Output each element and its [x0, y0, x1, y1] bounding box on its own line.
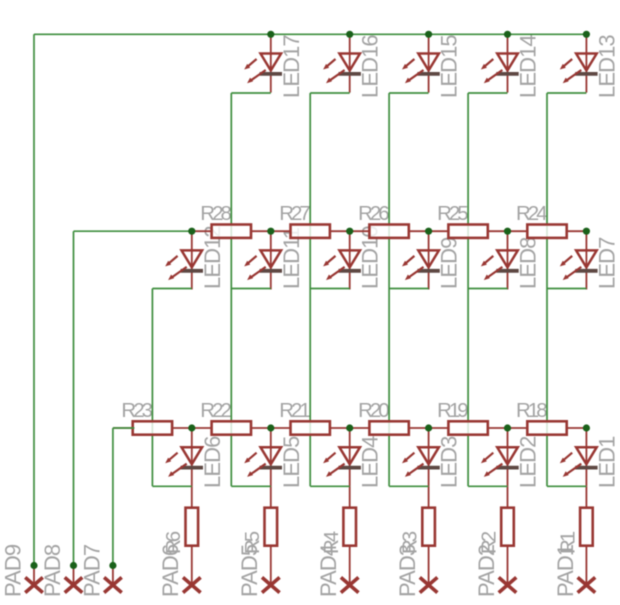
- pad PAD8: [65, 577, 83, 592]
- svg-text:PAD5: PAD5: [237, 544, 262, 597]
- pad PAD4: [341, 577, 359, 592]
- resistor R6 (vertical): [186, 508, 199, 546]
- wire bottom bus left stub: [113, 427, 134, 429]
- wire PAD7 drop: [112, 428, 114, 566]
- wire R3 leads to PAD3: [428, 486, 430, 585]
- junction middle bus at LED8: [504, 228, 511, 235]
- LED LED9: [402, 231, 440, 289]
- wire column F (LED13-LED7-LED1) vertical: [546, 93, 548, 486]
- wire PAD9 drop: [33, 34, 35, 565]
- resistor R19 (horizontal): [429, 421, 508, 434]
- junction top bus at LED13: [583, 31, 590, 38]
- wire LED8 cathode jog: [468, 288, 507, 290]
- svg-text:R20: R20: [358, 399, 389, 422]
- wire R2 leads to PAD2: [507, 486, 509, 585]
- wire column A vertical (LED12 to LED6): [151, 289, 153, 487]
- LED LED6: [165, 428, 203, 486]
- LED LED13: [560, 34, 598, 92]
- wire LED2 cathode jog: [468, 485, 507, 487]
- wire column B (LED17-LED11-LED5) vertical: [230, 93, 232, 486]
- svg-text:LED14: LED14: [516, 35, 541, 98]
- resistor R25 (horizontal): [429, 225, 508, 238]
- LED LED12: [165, 231, 203, 289]
- junction PAD7: [109, 562, 116, 569]
- resistor R3 (vertical): [422, 508, 435, 546]
- junction middle bus at LED12: [188, 228, 195, 235]
- LED LED1: [560, 428, 598, 486]
- junction PAD8: [70, 562, 77, 569]
- LED LED15: [402, 34, 440, 92]
- svg-text:LED15: LED15: [437, 35, 462, 98]
- pad PAD7: [104, 577, 122, 592]
- svg-text:R23: R23: [121, 399, 152, 422]
- svg-text:R25: R25: [437, 202, 468, 225]
- wire LED17 cathode jog: [231, 92, 270, 94]
- junction top bus at LED14: [504, 31, 511, 38]
- resistor R28 (horizontal): [192, 225, 271, 238]
- resistor R22 (horizontal): [192, 421, 271, 434]
- junction bottom bus at LED5: [267, 424, 274, 431]
- junction bottom bus at LED2: [504, 424, 511, 431]
- wire PAD8 pin: [73, 566, 75, 586]
- junction bottom bus at LED6: [188, 424, 195, 431]
- LED LED5: [244, 428, 282, 486]
- wire LED4 cathode jog: [310, 485, 350, 487]
- svg-text:R19: R19: [437, 399, 468, 422]
- svg-text:LED6: LED6: [200, 436, 225, 488]
- junction top bus at LED16: [346, 31, 353, 38]
- resistor R2 (vertical): [501, 508, 514, 546]
- resistor R4 (vertical): [343, 508, 356, 546]
- svg-text:LED3: LED3: [437, 436, 462, 488]
- svg-text:PAD6: PAD6: [158, 544, 183, 597]
- wire column D (LED15-LED9-LED3) vertical: [388, 93, 390, 486]
- wire column E (LED14-LED8-LED2) vertical: [467, 93, 469, 486]
- wire middle bus left: [74, 230, 192, 232]
- pad PAD2: [499, 577, 517, 592]
- svg-text:LED13: LED13: [594, 35, 619, 98]
- svg-text:PAD2: PAD2: [474, 544, 499, 597]
- wire R4 leads to PAD4: [349, 486, 351, 585]
- wire LED3 cathode jog: [389, 485, 429, 487]
- junction top bus at LED17: [267, 31, 274, 38]
- LED LED8: [481, 231, 519, 289]
- resistor R1 (vertical): [580, 508, 593, 546]
- resistor R5 (vertical): [265, 508, 278, 546]
- svg-text:R27: R27: [279, 202, 310, 225]
- resistor R21 (horizontal): [271, 421, 350, 434]
- resistor R23 (horizontal): [113, 421, 192, 434]
- svg-text:R26: R26: [358, 202, 389, 225]
- wire LED16 cathode jog: [310, 92, 350, 94]
- wire LED9 cathode jog: [389, 288, 429, 290]
- junction middle bus at LED11: [267, 228, 274, 235]
- LED LED14: [481, 34, 519, 92]
- junction middle bus at LED7: [583, 228, 590, 235]
- pad PAD5: [262, 577, 280, 592]
- svg-text:R24: R24: [516, 202, 547, 225]
- wire top bus: [34, 33, 586, 35]
- resistor R26 (horizontal): [350, 225, 429, 238]
- svg-text:LED8: LED8: [516, 237, 541, 289]
- wire R1 leads to PAD1: [585, 486, 587, 585]
- pad PAD6: [183, 577, 201, 592]
- wire LED13 cathode jog: [547, 92, 586, 94]
- svg-text:PAD4: PAD4: [316, 544, 341, 597]
- svg-text:LED7: LED7: [594, 237, 619, 289]
- svg-text:PAD7: PAD7: [79, 544, 104, 597]
- svg-text:R22: R22: [200, 399, 231, 422]
- wire R5 leads to PAD5: [270, 486, 272, 585]
- junction bottom bus at LED4: [346, 424, 353, 431]
- wire LED6 cathode jog: [152, 485, 191, 487]
- svg-text:LED1: LED1: [594, 436, 619, 488]
- junction middle bus at LED9: [425, 228, 432, 235]
- svg-text:LED17: LED17: [279, 35, 304, 98]
- LED LED11: [244, 231, 282, 289]
- wire PAD9 pin: [33, 566, 35, 586]
- svg-text:R21: R21: [279, 399, 310, 422]
- resistor R24 (horizontal): [508, 225, 587, 238]
- junction top bus at LED15: [425, 31, 432, 38]
- resistor R18 (horizontal): [508, 421, 587, 434]
- wire column C (LED16-LED10-LED4) vertical: [309, 93, 311, 486]
- wire LED7 cathode jog: [547, 288, 586, 290]
- wire LED11 cathode jog: [231, 288, 270, 290]
- junction bottom bus at LED3: [425, 424, 432, 431]
- svg-text:PAD3: PAD3: [395, 544, 420, 597]
- wire LED10 cathode jog: [310, 288, 350, 290]
- LED LED16: [323, 34, 361, 92]
- svg-text:LED16: LED16: [358, 35, 383, 98]
- wire LED12 cathode jog: [152, 288, 191, 290]
- svg-text:R28: R28: [200, 202, 231, 225]
- LED LED2: [481, 428, 519, 486]
- wire PAD7 pin: [112, 566, 114, 586]
- svg-text:PAD8: PAD8: [40, 544, 65, 597]
- svg-text:LED2: LED2: [516, 436, 541, 488]
- svg-text:PAD1: PAD1: [553, 544, 578, 597]
- wire LED1 cathode jog: [547, 485, 586, 487]
- LED LED3: [402, 428, 440, 486]
- LED LED17: [244, 34, 282, 92]
- svg-text:LED4: LED4: [358, 436, 383, 488]
- wire PAD8 drop: [73, 231, 75, 565]
- resistor R27 (horizontal): [271, 225, 350, 238]
- junction PAD9: [30, 562, 37, 569]
- LED LED7: [560, 231, 598, 289]
- svg-text:LED9: LED9: [437, 237, 462, 289]
- resistor R20 (horizontal): [350, 421, 429, 434]
- wire R6 leads to PAD6: [191, 486, 193, 585]
- svg-text:R18: R18: [516, 399, 547, 422]
- wire LED14 cathode jog: [468, 92, 507, 94]
- wire LED15 cathode jog: [389, 92, 429, 94]
- svg-text:PAD9: PAD9: [0, 544, 25, 597]
- wire LED5 cathode jog: [231, 485, 270, 487]
- pad PAD3: [420, 577, 438, 592]
- junction middle bus at LED10: [346, 228, 353, 235]
- svg-text:LED5: LED5: [279, 436, 304, 488]
- pad PAD1: [578, 577, 596, 592]
- pad PAD9: [25, 577, 43, 592]
- LED LED4: [323, 428, 361, 486]
- junction bottom bus at LED1: [583, 424, 590, 431]
- LED LED10: [323, 231, 361, 289]
